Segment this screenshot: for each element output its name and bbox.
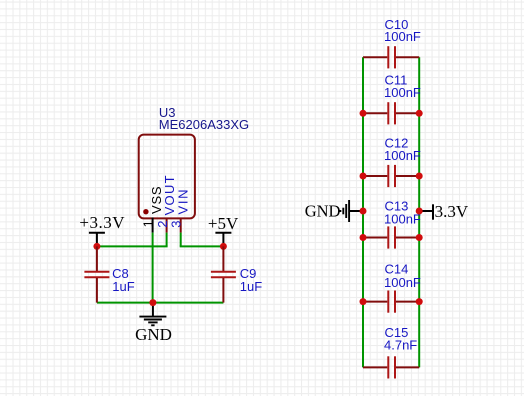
svg-text:1uF: 1uF bbox=[112, 279, 134, 294]
junction node GND (left) bbox=[149, 299, 156, 306]
junction node row C12 right bbox=[416, 173, 423, 180]
ground symbol (left) bbox=[139, 303, 166, 326]
wire bottom GND rail bbox=[97, 302, 223, 304]
wire right rail bbox=[418, 57, 420, 367]
power port +5V bbox=[208, 214, 239, 246]
junction node +5V bbox=[220, 243, 227, 250]
svg-text:100nF: 100nF bbox=[384, 29, 421, 44]
svg-text:100nF: 100nF bbox=[384, 211, 421, 226]
capacitor C13 bbox=[363, 226, 419, 248]
capacitor C13 labels bbox=[384, 199, 421, 227]
capacitor C14 labels bbox=[384, 262, 421, 290]
svg-text:GND: GND bbox=[135, 325, 172, 344]
svg-text:100nF: 100nF bbox=[384, 275, 421, 290]
pin 1 (VSS) bbox=[152, 218, 154, 233]
junction node row C13 left bbox=[360, 234, 367, 241]
svg-text:VIN: VIN bbox=[176, 188, 191, 215]
ground symbol (right, rotated) bbox=[340, 200, 363, 222]
wire left rail bbox=[362, 57, 364, 367]
svg-text:1: 1 bbox=[140, 220, 155, 227]
svg-text:ME6206A33XG: ME6206A33XG bbox=[159, 117, 249, 132]
wire pin3 to +5V node bbox=[180, 245, 224, 247]
pin 2 (VOUT) bbox=[166, 218, 168, 233]
capacitor C9 labels bbox=[240, 266, 262, 294]
svg-text:GND: GND bbox=[305, 201, 341, 220]
svg-text:+5V: +5V bbox=[208, 214, 239, 233]
svg-text:4.7nF: 4.7nF bbox=[384, 338, 417, 353]
junction node row C14 left bbox=[360, 298, 367, 305]
capacitor C12 labels bbox=[384, 136, 421, 163]
capacitor C11 bbox=[363, 102, 419, 124]
svg-text:3: 3 bbox=[168, 221, 183, 228]
capacitor C8 labels bbox=[112, 266, 135, 294]
junction node row C11 right bbox=[416, 110, 423, 117]
pin 1 dot bbox=[143, 209, 148, 214]
junction node +3.3V bbox=[93, 243, 100, 250]
capacitor C11 labels bbox=[384, 73, 421, 100]
power port 3.3V (right) bbox=[419, 202, 469, 221]
wire pin2 to +3.3V node bbox=[97, 245, 168, 247]
IC U3 body (ME6206A33XG regulator) bbox=[139, 135, 195, 219]
svg-text:+3.3V: +3.3V bbox=[79, 213, 125, 232]
capacitor C12 bbox=[363, 165, 419, 187]
junction node GND row right bbox=[416, 208, 423, 215]
capacitor C15 labels bbox=[384, 325, 417, 353]
svg-text:1uF: 1uF bbox=[240, 279, 262, 294]
capacitor C14 bbox=[363, 291, 419, 313]
wire pin3 down bbox=[180, 233, 182, 247]
svg-text:100nF: 100nF bbox=[384, 85, 421, 100]
wire pin2 down bbox=[166, 233, 168, 247]
junction node row C13 right bbox=[416, 234, 423, 241]
svg-text:100nF: 100nF bbox=[384, 148, 421, 163]
junction node row C12 left bbox=[360, 173, 367, 180]
power port +3.3V bbox=[79, 213, 125, 247]
capacitor C10 bbox=[363, 46, 419, 68]
capacitor C9 bbox=[211, 246, 236, 302]
capacitor C8 bbox=[84, 246, 109, 302]
svg-text:3.3V: 3.3V bbox=[435, 202, 469, 221]
capacitor C10 labels bbox=[384, 17, 421, 44]
junction node GND row left bbox=[360, 208, 367, 215]
junction node row C14 right bbox=[416, 298, 423, 305]
capacitor C15 bbox=[363, 356, 419, 378]
pin 3 (VIN) bbox=[180, 218, 182, 233]
junction node row C11 left bbox=[360, 110, 367, 117]
wire pin1 to GND junction bbox=[152, 233, 154, 303]
